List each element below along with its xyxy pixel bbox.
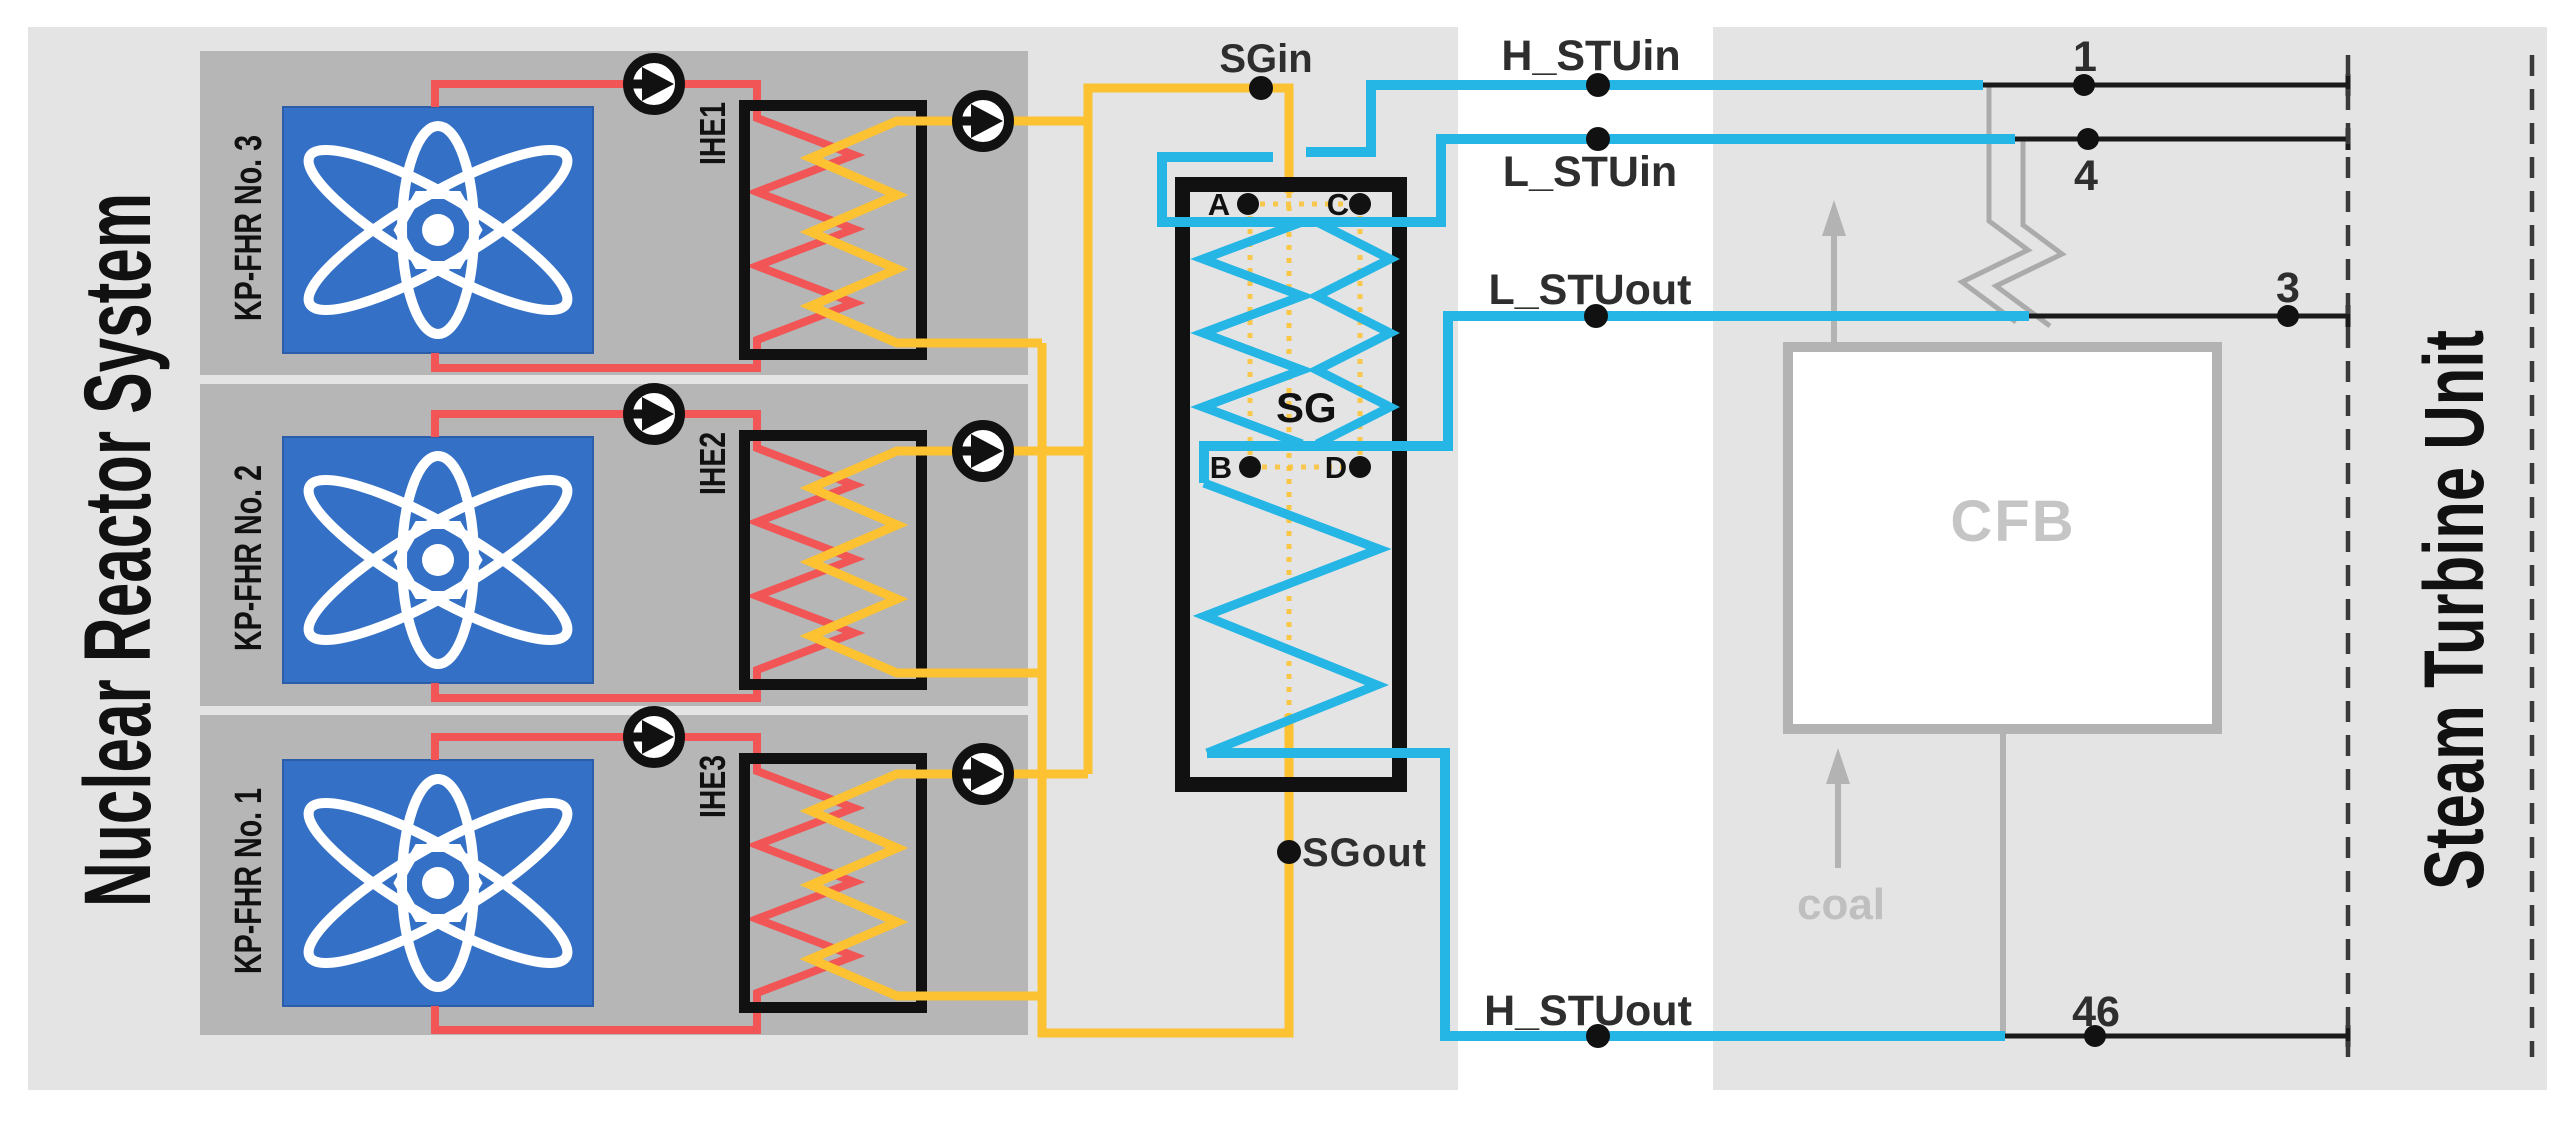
svg-text:KP-FHR No. 3: KP-FHR No. 3	[228, 135, 270, 321]
wire red primary loop KP-FHR No. 1	[435, 737, 854, 1030]
svg-text:KP-FHR No. 2: KP-FHR No. 2	[228, 465, 270, 651]
wire yellow dashed B-D	[1262, 465, 1348, 470]
node SGin	[1249, 76, 1273, 100]
svg-text:C: C	[1327, 187, 1349, 222]
node A	[1237, 193, 1259, 215]
grid break symbol right stroke	[1996, 139, 2062, 326]
svg-text:L_STUout: L_STUout	[1488, 266, 1691, 314]
svg-text:KP-FHR No. 1: KP-FHR No. 1	[228, 788, 270, 974]
wire yellow dashed center	[1287, 193, 1292, 715]
svg-text:3: 3	[2276, 264, 2300, 312]
svg-text:4: 4	[2074, 152, 2098, 200]
right light gray region	[1713, 27, 2547, 1090]
wire yellow secondary IHE1	[811, 121, 1088, 343]
node L_STUin	[1586, 127, 1610, 151]
heat exchanger IHE1	[745, 106, 922, 355]
coal arrow	[1835, 780, 1841, 868]
svg-text:H_STUout: H_STUout	[1484, 987, 1692, 1035]
svg-text:1: 1	[2073, 33, 2097, 81]
pump secondary IHE1	[957, 95, 1009, 147]
svg-text:CFB: CFB	[1950, 489, 2075, 554]
wire H_STUout	[1207, 753, 2005, 1036]
wire red primary loop KP-FHR No. 3	[435, 84, 854, 368]
wire yellow secondary IHE3	[811, 774, 1088, 996]
grid break symbol left stroke	[1962, 85, 2028, 322]
steam generator SG frame	[1183, 185, 1400, 785]
svg-text:Nuclear Reactor System: Nuclear Reactor System	[65, 193, 171, 907]
node D	[1349, 456, 1371, 478]
wire yellow dashed C-D	[1358, 216, 1363, 455]
svg-text:SGout: SGout	[1302, 831, 1427, 875]
node B	[1239, 456, 1261, 478]
wire turbine line 46	[2005, 1034, 2348, 1039]
wire blue SG right coil	[1317, 222, 1390, 444]
wire blue SG left coil	[1203, 222, 1302, 444]
wire L_STUout	[1204, 316, 2029, 483]
heat exchanger IHE3	[745, 759, 922, 1008]
svg-text:H_STUin: H_STUin	[1501, 32, 1680, 80]
node 4	[2077, 128, 2099, 150]
node 1	[2073, 74, 2095, 96]
node L_STUout	[1584, 304, 1608, 328]
wire turbine line 3	[2029, 314, 2348, 319]
wire yellow cold return manifold	[1042, 343, 1289, 1033]
wire turbine line 4	[2015, 137, 2348, 142]
wire L_STUin	[1162, 139, 2015, 222]
pump primary KP-FHR No. 1	[628, 711, 680, 763]
pump primary KP-FHR No. 3	[628, 58, 680, 110]
flue gas arrow	[1831, 232, 1837, 342]
wire H_STUin	[1306, 85, 1983, 152]
svg-text:IHE2: IHE2	[692, 432, 733, 495]
boundary dashed line outer	[2530, 55, 2535, 1057]
node H_STUout	[1586, 1024, 1610, 1048]
svg-text:L_STUin: L_STUin	[1503, 148, 1677, 196]
svg-text:SGin: SGin	[1219, 37, 1312, 81]
pump secondary IHE3	[957, 748, 1009, 800]
svg-text:Steam Turbine Unit: Steam Turbine Unit	[2407, 330, 2501, 890]
wire yellow dashed A-B	[1248, 216, 1253, 455]
svg-text:46: 46	[2072, 988, 2120, 1036]
heat exchanger IHE2	[745, 436, 922, 685]
node 3	[2277, 305, 2299, 327]
pump secondary IHE2	[957, 425, 1009, 477]
reactor KP-FHR No. 1	[283, 760, 593, 1006]
wire turbine line 1	[1983, 83, 2348, 88]
left/middle light gray region	[28, 27, 1458, 1090]
reactor row panel 2	[200, 384, 1028, 706]
svg-text:IHE1: IHE1	[692, 102, 733, 165]
boundary dashed line inner	[2346, 55, 2351, 1057]
reactor KP-FHR No. 2	[283, 437, 593, 683]
wire blue SG lower coil	[1204, 483, 1379, 753]
boiler CFB box	[1788, 347, 2217, 729]
svg-text:B: B	[1210, 450, 1232, 485]
svg-text:IHE3: IHE3	[692, 755, 733, 818]
wire yellow secondary IHE2	[811, 451, 1088, 673]
node 46	[2084, 1025, 2106, 1047]
reactor row panel 3	[200, 715, 1028, 1035]
svg-text:coal: coal	[1797, 880, 1885, 929]
svg-text:A: A	[1208, 187, 1230, 222]
node H_STUin	[1586, 73, 1610, 97]
svg-text:SG: SG	[1276, 384, 1337, 431]
wire yellow hot manifold to SGin	[1088, 88, 1289, 774]
node C	[1349, 193, 1371, 215]
pump primary KP-FHR No. 2	[628, 388, 680, 440]
wire CFB bottom feed	[2000, 734, 2006, 1036]
reactor KP-FHR No. 3	[283, 107, 593, 353]
svg-text:D: D	[1325, 450, 1347, 485]
wire red primary loop KP-FHR No. 2	[435, 414, 854, 698]
reactor row panel 1	[200, 51, 1028, 375]
wire yellow dashed A-C	[1260, 202, 1348, 207]
node SGout	[1277, 840, 1301, 864]
